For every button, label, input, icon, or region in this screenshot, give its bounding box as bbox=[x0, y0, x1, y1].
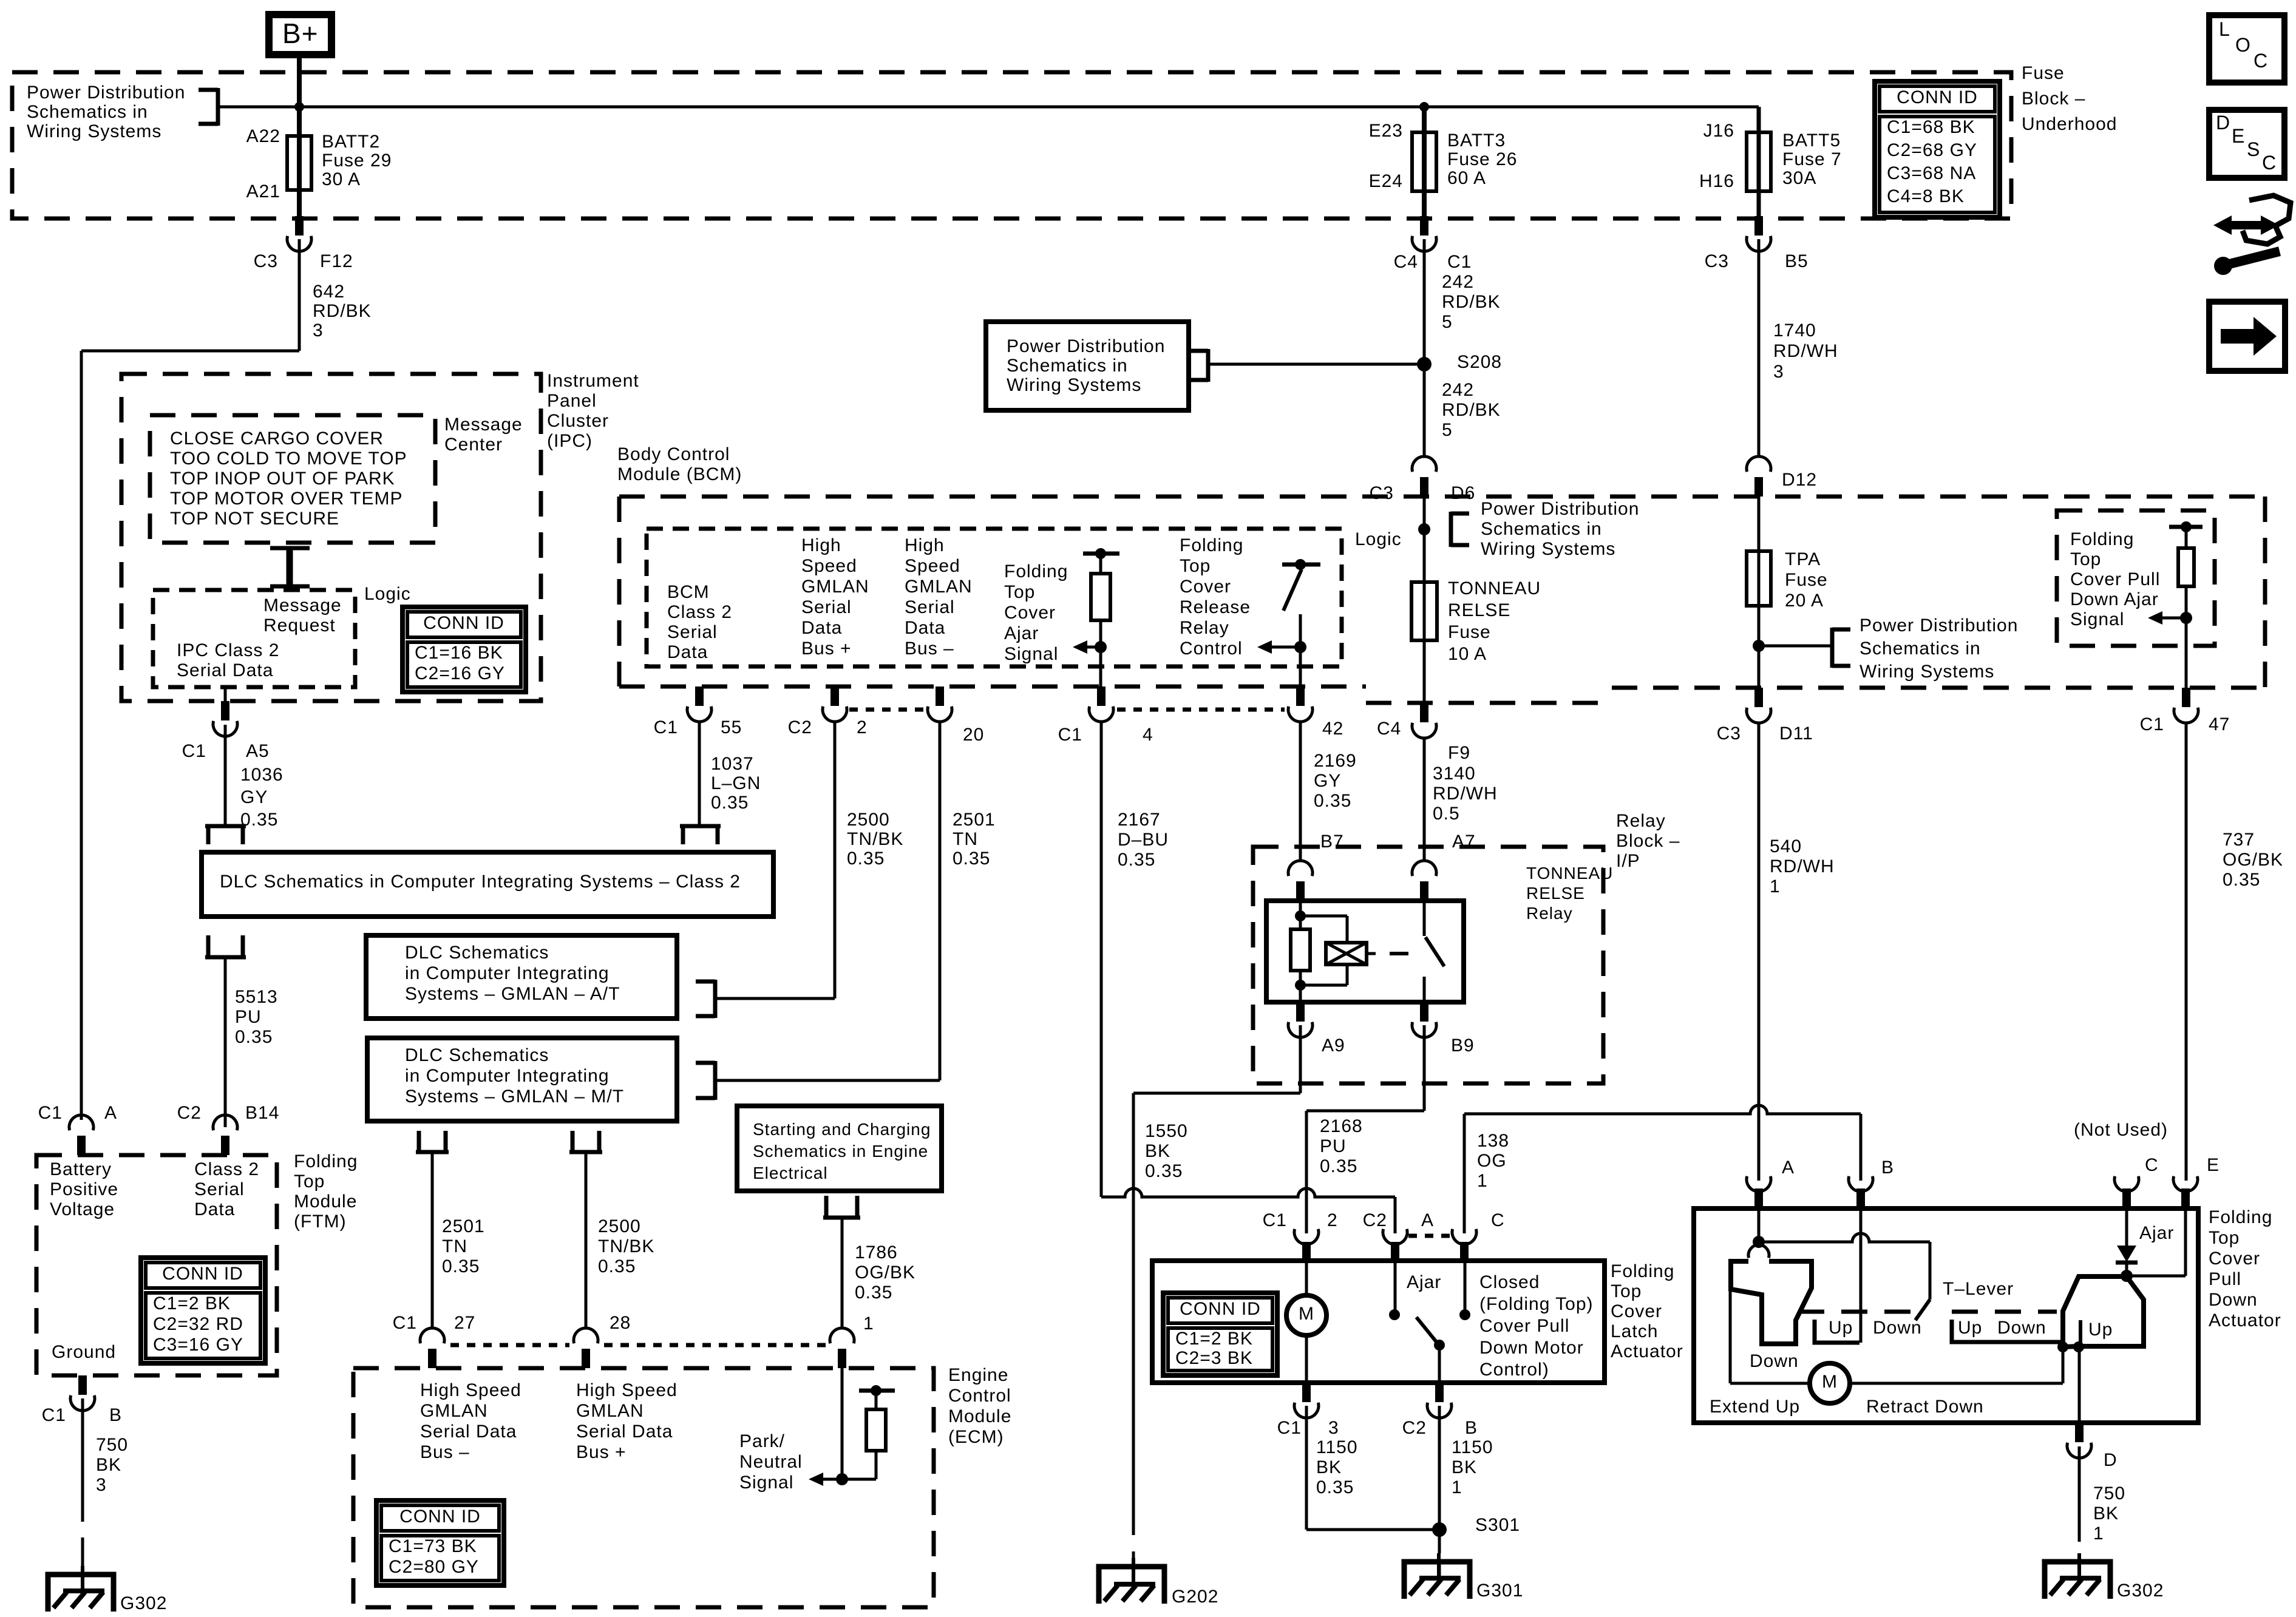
pull down ajar resistor bbox=[2169, 521, 2203, 618]
svg-text:750: 750 bbox=[96, 1435, 128, 1455]
connector C3/B5 bbox=[1747, 216, 1771, 251]
label 642 RD/BK 3 bbox=[313, 282, 372, 341]
svg-text:C1: C1 bbox=[42, 1405, 66, 1425]
svg-text:B: B bbox=[109, 1405, 122, 1425]
connector C1/A (FTM) bbox=[69, 1115, 93, 1155]
svg-text:Down Ajar: Down Ajar bbox=[2070, 589, 2159, 609]
svg-text:Wiring Systems: Wiring Systems bbox=[1860, 662, 1994, 682]
svg-text:(FTM): (FTM) bbox=[294, 1212, 347, 1232]
svg-text:242: 242 bbox=[1442, 272, 1474, 292]
svg-text:CLOSE CARGO COVER: CLOSE CARGO COVER bbox=[170, 429, 384, 449]
label BATT5 Fuse 7 30A bbox=[1782, 131, 1842, 188]
svg-text:C2: C2 bbox=[1363, 1210, 1387, 1230]
svg-text:1: 1 bbox=[863, 1314, 874, 1334]
connector ECM pin 1 bbox=[830, 1328, 854, 1368]
wire 2501 TN to ECM 27 bbox=[431, 1151, 434, 1329]
svg-text:L–GN: L–GN bbox=[711, 773, 761, 793]
svg-text:B14: B14 bbox=[245, 1103, 279, 1123]
ground G302 (left) bbox=[48, 1566, 167, 1613]
wire D12 to TPA fuse bbox=[1758, 497, 1761, 688]
svg-text:Up: Up bbox=[1829, 1318, 1853, 1338]
wire 3140 RD/WH to relay A7 bbox=[1423, 738, 1426, 862]
label Park/Neutral Signal bbox=[739, 1431, 803, 1493]
CONN ID table latch actuator bbox=[1163, 1293, 1277, 1375]
relay coil branch wires bbox=[1295, 901, 1347, 1002]
svg-text:2169: 2169 bbox=[1314, 751, 1357, 771]
svg-text:H16: H16 bbox=[1699, 171, 1734, 191]
actuator A wire and node bbox=[1753, 1209, 1765, 1248]
up lever funnel bbox=[2063, 1276, 2144, 1347]
svg-text:0.35: 0.35 bbox=[711, 793, 749, 813]
svg-text:0.35: 0.35 bbox=[953, 849, 990, 869]
svg-text:Module: Module bbox=[294, 1192, 357, 1212]
svg-text:BATT2: BATT2 bbox=[322, 132, 380, 152]
svg-text:Power Distribution: Power Distribution bbox=[27, 83, 185, 103]
junction node bus/BATT3 bbox=[1419, 102, 1429, 112]
wire S208 to connector C3/D6 bbox=[1423, 364, 1426, 458]
connector A9 bbox=[1288, 1002, 1313, 1037]
svg-text:Fuse 7: Fuse 7 bbox=[1782, 149, 1842, 169]
svg-text:750: 750 bbox=[2093, 1483, 2125, 1503]
svg-text:C2=32 RD: C2=32 RD bbox=[153, 1314, 243, 1334]
wire bus to BATT3 fuse bbox=[1422, 107, 1427, 216]
wire IPC class2 to connector C1/A5 bbox=[224, 687, 227, 701]
svg-text:138: 138 bbox=[1477, 1131, 1509, 1151]
svg-text:C3: C3 bbox=[1705, 251, 1729, 271]
svg-text:TN/BK: TN/BK bbox=[598, 1236, 654, 1256]
svg-text:1740: 1740 bbox=[1773, 320, 1816, 341]
svg-text:GMLAN: GMLAN bbox=[576, 1401, 644, 1421]
svg-text:1037: 1037 bbox=[711, 754, 754, 774]
dotted connector strip ECM bbox=[450, 1343, 826, 1347]
svg-text:D: D bbox=[2216, 112, 2230, 134]
svg-text:B: B bbox=[1465, 1418, 1478, 1438]
ground G202 bbox=[1099, 1558, 1218, 1607]
node relay control junction bbox=[1294, 641, 1306, 653]
svg-text:A21: A21 bbox=[246, 181, 280, 202]
svg-text:Request: Request bbox=[263, 615, 336, 636]
svg-text:Serial: Serial bbox=[801, 597, 852, 617]
svg-text:C4: C4 bbox=[1377, 719, 1401, 739]
svg-text:Top: Top bbox=[1004, 582, 1035, 602]
svg-text:B5: B5 bbox=[1785, 251, 1809, 271]
label TPA Fuse 20 A bbox=[1785, 549, 1828, 611]
up contact bracket (right) bbox=[1952, 1320, 2063, 1342]
connector C1/A5 bbox=[213, 701, 237, 736]
svg-text:F12: F12 bbox=[320, 251, 353, 271]
svg-text:PU: PU bbox=[235, 1007, 262, 1027]
svg-text:737: 737 bbox=[2223, 830, 2255, 850]
svg-text:Actuator: Actuator bbox=[1611, 1341, 1683, 1361]
wire B9 to latch motor bbox=[1306, 1025, 1424, 1233]
label Folding Top Cover Pull Down Actuator bbox=[2209, 1207, 2281, 1331]
T-Lever dashed line bbox=[1798, 1310, 2057, 1314]
label Message Center bbox=[444, 415, 523, 455]
svg-text:O: O bbox=[2235, 34, 2251, 56]
wire FTM ground to G302 left bbox=[81, 1398, 84, 1591]
svg-text:C1=2 BK: C1=2 BK bbox=[1175, 1329, 1253, 1349]
svg-text:S: S bbox=[2247, 138, 2260, 160]
svg-text:RD/WH: RD/WH bbox=[1773, 341, 1838, 361]
svg-text:Actuator: Actuator bbox=[2209, 1310, 2281, 1331]
latch switch blade bbox=[1416, 1317, 1445, 1383]
svg-text:Starting and Charging: Starting and Charging bbox=[753, 1120, 931, 1139]
svg-text:Fuse: Fuse bbox=[2022, 63, 2065, 83]
ajar signal arrow bbox=[1073, 640, 1101, 654]
svg-text:C1: C1 bbox=[1447, 252, 1472, 272]
svg-text:1: 1 bbox=[1770, 876, 1781, 897]
connector 20 (BCM) bbox=[928, 686, 952, 722]
svg-text:C1=2 BK: C1=2 BK bbox=[153, 1293, 231, 1314]
svg-text:Release: Release bbox=[1180, 597, 1251, 617]
svg-text:BK: BK bbox=[96, 1455, 121, 1475]
wire ajar signal to pin 47 bbox=[2185, 618, 2188, 688]
dotted connector strip BCM left bbox=[849, 708, 925, 712]
CONN ID table ECM bbox=[376, 1500, 504, 1585]
label BATT2 Fuse 29 30 A bbox=[322, 132, 392, 189]
svg-text:TOP MOTOR OVER TEMP: TOP MOTOR OVER TEMP bbox=[170, 489, 403, 509]
fuse TPA 20A bbox=[1747, 551, 1771, 606]
Folding Top Cover Latch Actuator box bbox=[1152, 1261, 1605, 1383]
wire E to ajar junction bbox=[2127, 1209, 2186, 1276]
label 242 RD/BK 5 (upper) bbox=[1442, 272, 1501, 332]
svg-text:1: 1 bbox=[2093, 1524, 2104, 1544]
svg-text:A5: A5 bbox=[246, 741, 270, 761]
svg-text:Schematics in: Schematics in bbox=[1007, 356, 1128, 376]
actuator ajar diode bbox=[2116, 1209, 2138, 1276]
terminal bracket 55 to DLC box bbox=[680, 826, 721, 844]
svg-text:0.35: 0.35 bbox=[235, 1027, 273, 1047]
connector D (actuator bottom) bbox=[2067, 1423, 2091, 1458]
relay coil to switch dashed link bbox=[1390, 952, 1408, 955]
svg-text:C1: C1 bbox=[2140, 714, 2164, 734]
actuator lever cup bbox=[1748, 1245, 1769, 1258]
svg-text:Relay: Relay bbox=[1180, 618, 1229, 638]
svg-text:Cover: Cover bbox=[1611, 1301, 1662, 1321]
label 1786 OG/BK 0.35 bbox=[855, 1242, 915, 1303]
svg-text:TN: TN bbox=[953, 829, 978, 849]
node ajar signal junction bbox=[1095, 641, 1107, 653]
wire D inside actuator bbox=[2078, 1347, 2081, 1423]
svg-text:C3=68 NA: C3=68 NA bbox=[1887, 163, 1976, 183]
svg-text:3: 3 bbox=[313, 320, 324, 341]
svg-text:GY: GY bbox=[1314, 771, 1341, 791]
node park/neutral junction bbox=[836, 1473, 848, 1485]
svg-text:(Not Used): (Not Used) bbox=[2074, 1120, 2168, 1140]
svg-text:C2: C2 bbox=[788, 717, 812, 737]
svg-text:Ajar: Ajar bbox=[1004, 623, 1039, 643]
latch ajar contact bbox=[1389, 1261, 1400, 1320]
junction node B+/bus bbox=[294, 102, 304, 112]
svg-text:1: 1 bbox=[1477, 1171, 1488, 1191]
svg-text:0.35: 0.35 bbox=[1145, 1161, 1183, 1181]
svg-text:1786: 1786 bbox=[855, 1242, 898, 1263]
svg-text:C1=73 BK: C1=73 BK bbox=[389, 1536, 477, 1556]
svg-text:High Speed: High Speed bbox=[576, 1380, 678, 1400]
svg-text:RD/BK: RD/BK bbox=[1442, 292, 1501, 312]
wire 2501 TN label (BCM) bbox=[953, 810, 996, 869]
connector B9 bbox=[1412, 1002, 1436, 1037]
label Body Control Module (BCM) bbox=[617, 444, 742, 484]
svg-text:G302: G302 bbox=[120, 1593, 167, 1613]
bus wire from bracket to BATT5 drop bbox=[216, 106, 1759, 109]
wire 642 RD/BK down-left to FTM column bbox=[81, 239, 299, 1120]
svg-text:10 A: 10 A bbox=[1448, 644, 1487, 664]
svg-text:5: 5 bbox=[1442, 312, 1453, 332]
terminal bracket starting/charging bbox=[823, 1196, 860, 1218]
svg-text:A: A bbox=[1421, 1210, 1434, 1230]
svg-text:Folding: Folding bbox=[294, 1151, 358, 1171]
label 750 BK 1 bbox=[2093, 1483, 2125, 1544]
label TONNEAU RELSE Relay bbox=[1526, 864, 1613, 923]
ground G301 bbox=[1404, 1553, 1523, 1601]
svg-text:BATT5: BATT5 bbox=[1782, 131, 1841, 151]
svg-text:Class 2: Class 2 bbox=[194, 1159, 259, 1179]
svg-text:C2=80 GY: C2=80 GY bbox=[389, 1557, 479, 1577]
svg-text:Data: Data bbox=[194, 1199, 235, 1219]
relay TONNEAU RELSE body bbox=[1266, 901, 1464, 1002]
svg-text:Schematics in: Schematics in bbox=[1860, 639, 1981, 659]
svg-text:Schematics in: Schematics in bbox=[1481, 519, 1602, 539]
connector A7 bbox=[1412, 861, 1436, 901]
svg-text:DLC Schematics: DLC Schematics bbox=[405, 1045, 549, 1065]
svg-text:D–BU: D–BU bbox=[1118, 830, 1169, 850]
forward arrow icon box bbox=[2209, 302, 2285, 371]
svg-text:C1=68 BK: C1=68 BK bbox=[1887, 117, 1975, 137]
svg-text:Fuse: Fuse bbox=[1448, 622, 1491, 642]
up contact stub bbox=[2079, 1320, 2082, 1344]
label Fuse Block - Underhood bbox=[2022, 63, 2117, 134]
wire 540 RD/WH to actuator A bbox=[1758, 722, 1761, 1181]
svg-text:BK: BK bbox=[1145, 1141, 1170, 1161]
label Instrument Panel Cluster (IPC) bbox=[547, 371, 639, 451]
svg-text:G202: G202 bbox=[1172, 1587, 1218, 1607]
svg-text:Cover Pull: Cover Pull bbox=[1479, 1316, 1569, 1336]
svg-text:RD/BK: RD/BK bbox=[313, 301, 372, 321]
svg-text:(Folding Top): (Folding Top) bbox=[1479, 1294, 1594, 1314]
svg-text:A: A bbox=[1782, 1158, 1795, 1178]
svg-text:Module: Module bbox=[948, 1406, 1011, 1426]
wire C2/B to S301 bbox=[1438, 1406, 1441, 1530]
bracket power distribution (TPA) bbox=[1832, 628, 1850, 668]
svg-text:42: 42 bbox=[1322, 719, 1343, 739]
wire actuator B contact bbox=[1860, 1209, 1863, 1343]
svg-text:0.35: 0.35 bbox=[1314, 791, 1351, 811]
svg-text:B9: B9 bbox=[1451, 1036, 1475, 1056]
wire 1037 L-GN from BCM 55 bbox=[698, 722, 701, 824]
svg-text:2168: 2168 bbox=[1320, 1116, 1363, 1136]
svg-text:Systems – GMLAN – M/T: Systems – GMLAN – M/T bbox=[405, 1086, 624, 1107]
svg-text:Serial Data: Serial Data bbox=[177, 660, 273, 680]
svg-text:C1=16 BK: C1=16 BK bbox=[415, 643, 503, 663]
svg-text:2500: 2500 bbox=[847, 810, 890, 830]
svg-text:Signal: Signal bbox=[739, 1473, 793, 1493]
DLC Schematics Class 2 reference box bbox=[202, 852, 773, 917]
svg-text:Top: Top bbox=[2209, 1228, 2240, 1248]
svg-text:TN/BK: TN/BK bbox=[847, 829, 903, 849]
label Power Distribution Schematics in Wiring Systems (tonneau) bbox=[1481, 499, 1639, 559]
svg-text:CONN ID: CONN ID bbox=[1180, 1299, 1261, 1319]
svg-text:C2=3 BK: C2=3 BK bbox=[1175, 1348, 1253, 1368]
svg-text:Fuse: Fuse bbox=[1785, 570, 1828, 590]
connector C1/B (FTM ground) bbox=[70, 1375, 95, 1411]
dotted strip latch connectors bbox=[1408, 1234, 1451, 1238]
svg-text:C1: C1 bbox=[1277, 1418, 1302, 1438]
wire A9 to ground G202 bbox=[1133, 1025, 1300, 1584]
svg-text:Top: Top bbox=[294, 1171, 325, 1192]
svg-text:C2=68 GY: C2=68 GY bbox=[1887, 140, 1977, 160]
svg-text:Speed: Speed bbox=[801, 556, 857, 576]
svg-text:D11: D11 bbox=[1779, 724, 1813, 744]
svg-text:0.35: 0.35 bbox=[1320, 1156, 1357, 1176]
wire 2167 D-BU to latch ajar switch bbox=[1101, 722, 1395, 1233]
svg-text:E23: E23 bbox=[1369, 121, 1403, 141]
actuator latch lever bbox=[1730, 1261, 1812, 1383]
svg-text:Serial: Serial bbox=[194, 1179, 245, 1199]
svg-text:BATT3: BATT3 bbox=[1447, 131, 1506, 151]
svg-text:E24: E24 bbox=[1369, 171, 1403, 191]
svg-text:3: 3 bbox=[96, 1475, 107, 1495]
svg-text:Folding: Folding bbox=[1180, 535, 1243, 555]
connector B7 bbox=[1288, 861, 1313, 901]
label 242 RD/BK 5 (lower) bbox=[1442, 380, 1501, 440]
svg-text:Retract Down: Retract Down bbox=[1866, 1397, 1984, 1417]
svg-text:Control): Control) bbox=[1479, 1360, 1549, 1380]
label BATT3 Fuse 26 60 A bbox=[1447, 131, 1517, 188]
label 1550 BK 0.35 bbox=[1145, 1121, 1188, 1181]
svg-text:Electrical: Electrical bbox=[753, 1164, 828, 1182]
B+ power symbol box bbox=[269, 15, 331, 55]
connector C1/2 (latch) bbox=[1294, 1229, 1319, 1261]
Fuse Block - Underhood dashed box bbox=[12, 72, 2011, 219]
svg-text:TPA: TPA bbox=[1785, 549, 1821, 569]
label BCM Class 2 Serial Data bbox=[667, 582, 732, 662]
label 2500 TN/BK 0.35 (ECM side) bbox=[598, 1216, 654, 1276]
label 1150 BK 0.35 bbox=[1316, 1437, 1358, 1497]
wire motor to up-lever node bbox=[2062, 1347, 2065, 1383]
label Closed (Folding Top) Cover Pull Down Motor Control bbox=[1479, 1272, 1594, 1380]
svg-text:0.35: 0.35 bbox=[598, 1256, 636, 1276]
svg-text:OG/BK: OG/BK bbox=[855, 1263, 915, 1283]
connector E (actuator) bbox=[2173, 1176, 2198, 1209]
svg-text:Battery: Battery bbox=[50, 1159, 112, 1179]
label High Speed GMLAN Serial Data Bus + (BCM) bbox=[801, 535, 869, 659]
wire 5513 PU to FTM C2/B14 bbox=[224, 957, 227, 1120]
svg-text:Cover Pull: Cover Pull bbox=[2070, 569, 2160, 589]
svg-text:RD/WH: RD/WH bbox=[1433, 784, 1498, 804]
svg-text:GMLAN: GMLAN bbox=[905, 577, 973, 597]
svg-text:Signal: Signal bbox=[2070, 609, 2124, 629]
connector C1/47 (BCM) bbox=[2174, 688, 2198, 723]
terminal bracket A5 to DLC box bbox=[205, 826, 246, 844]
terminal bracket M/T to ECM 28 bbox=[569, 1131, 602, 1152]
BCM ajar signal resistor branch bbox=[1083, 548, 1119, 647]
svg-text:GMLAN: GMLAN bbox=[801, 577, 869, 597]
svg-text:5: 5 bbox=[1442, 420, 1453, 440]
svg-text:High: High bbox=[801, 535, 841, 555]
svg-text:High Speed: High Speed bbox=[420, 1380, 521, 1400]
label Class 2 Serial Data (FTM) bbox=[194, 1159, 259, 1219]
svg-text:Voltage: Voltage bbox=[50, 1199, 115, 1219]
wire ajar signal to pin 4 bbox=[1099, 647, 1102, 686]
connector C (actuator) bbox=[2114, 1176, 2139, 1209]
connector C1/3 (latch bottom) bbox=[1294, 1383, 1319, 1418]
svg-text:0.35: 0.35 bbox=[1316, 1477, 1354, 1497]
label 540 RD/WH 1 bbox=[1770, 836, 1835, 897]
svg-text:Module (BCM): Module (BCM) bbox=[617, 464, 742, 484]
svg-text:0.35: 0.35 bbox=[240, 810, 278, 830]
terminal bracket below DLC class2 bbox=[205, 935, 246, 957]
svg-text:(ECM): (ECM) bbox=[948, 1427, 1004, 1447]
DLC Schematics GMLAN M/T box bbox=[367, 1038, 677, 1121]
svg-text:Folding: Folding bbox=[2070, 529, 2134, 549]
svg-text:Block –: Block – bbox=[2022, 89, 2085, 109]
svg-text:Data: Data bbox=[905, 618, 945, 638]
svg-text:Serial: Serial bbox=[905, 597, 955, 617]
svg-text:2501: 2501 bbox=[442, 1216, 485, 1236]
svg-text:Center: Center bbox=[444, 435, 503, 455]
connector ECM pin 27 bbox=[420, 1328, 444, 1368]
svg-text:Bus –: Bus – bbox=[905, 639, 954, 659]
svg-text:27: 27 bbox=[454, 1313, 475, 1333]
node up-lever 2 bbox=[2073, 1341, 2084, 1352]
wire 737 OG/BK to actuator E bbox=[2185, 722, 2188, 1181]
svg-text:60 A: 60 A bbox=[1447, 168, 1486, 188]
svg-text:Top: Top bbox=[1611, 1281, 1642, 1301]
Message Request / IPC Class 2 dashed box bbox=[153, 590, 355, 687]
svg-text:OG: OG bbox=[1477, 1151, 1507, 1171]
CONN ID table IPC bbox=[402, 607, 526, 692]
svg-text:0.35: 0.35 bbox=[2223, 870, 2260, 890]
svg-text:IPC Class 2: IPC Class 2 bbox=[177, 640, 279, 660]
svg-text:Logic: Logic bbox=[364, 584, 411, 604]
svg-text:Logic: Logic bbox=[1355, 529, 1402, 549]
svg-text:Top: Top bbox=[1180, 556, 1211, 576]
svg-text:A22: A22 bbox=[246, 126, 280, 146]
boxed reference Power Distribution Schematics in Wiring Systems (S208) bbox=[986, 322, 1189, 410]
label 2169 GY 0.35 bbox=[1314, 751, 1357, 811]
connector C3/D6 (BCM top) bbox=[1412, 456, 1436, 497]
label Power Distribution Schematics in Wiring Systems (TPA) bbox=[1860, 615, 2018, 682]
svg-text:Engine: Engine bbox=[948, 1365, 1008, 1385]
svg-text:Cover: Cover bbox=[1180, 577, 1231, 597]
connector A (actuator) bbox=[1747, 1176, 1771, 1209]
connector C1/4 (BCM) bbox=[1089, 686, 1113, 722]
svg-text:Down: Down bbox=[1873, 1318, 1922, 1338]
LOC icon box bbox=[2209, 15, 2284, 83]
Body Control Module dashed box bbox=[619, 497, 2265, 703]
fuse TONNEAU RELSE 10A bbox=[1411, 582, 1437, 640]
svg-text:C: C bbox=[2262, 152, 2277, 174]
svg-text:Message: Message bbox=[263, 595, 342, 615]
connector C2/2 (BCM) bbox=[823, 686, 847, 722]
DLC Schematics GMLAN A/T box bbox=[366, 935, 677, 1019]
svg-text:TONNEAU: TONNEAU bbox=[1526, 864, 1613, 883]
svg-text:Schematics in Engine: Schematics in Engine bbox=[753, 1142, 928, 1161]
svg-text:1: 1 bbox=[1452, 1477, 1462, 1497]
svg-text:Block –: Block – bbox=[1616, 831, 1680, 851]
wire 1740 RD/WH to D12 bbox=[1758, 239, 1761, 458]
diagnostic wrench icon bbox=[2213, 195, 2291, 275]
svg-text:Wiring Systems: Wiring Systems bbox=[27, 121, 161, 141]
svg-text:J16: J16 bbox=[1703, 121, 1734, 141]
wire C1/3 to S301 bbox=[1306, 1406, 1439, 1530]
bracket to Power Distribution text bbox=[199, 88, 218, 126]
svg-text:3140: 3140 bbox=[1433, 764, 1476, 784]
label 750 BK 3 bbox=[96, 1435, 128, 1495]
svg-text:C2=16 GY: C2=16 GY bbox=[415, 663, 505, 683]
up contact bracket (middle) bbox=[1815, 1320, 1860, 1343]
